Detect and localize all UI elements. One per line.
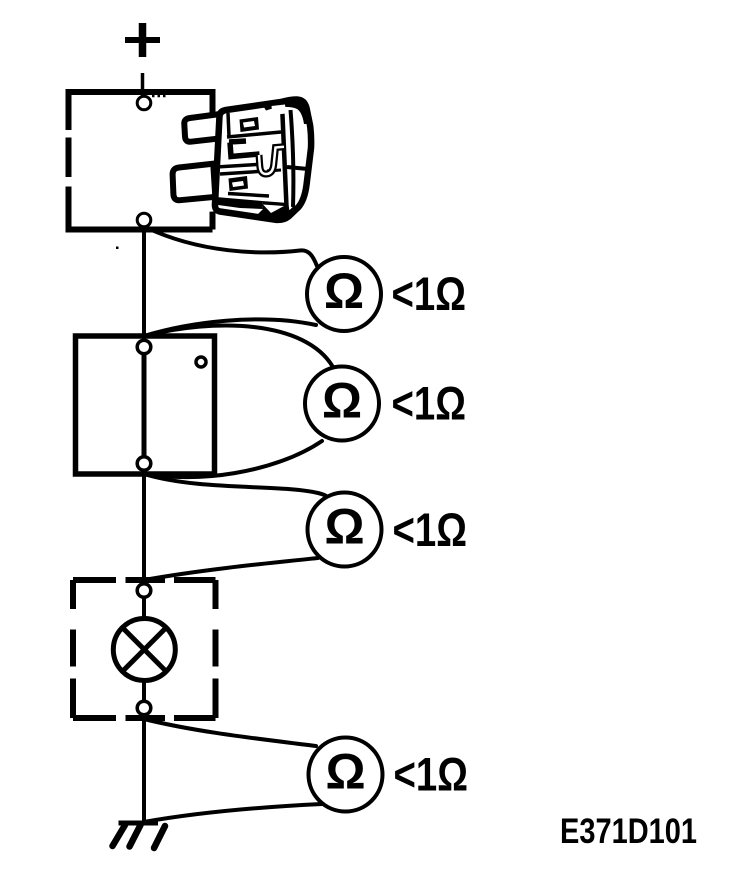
- svg-text:<1Ω: <1Ω: [392, 378, 467, 431]
- svg-text:<1Ω: <1Ω: [393, 504, 468, 557]
- svg-text:Ω: Ω: [324, 499, 364, 555]
- svg-text:<1Ω: <1Ω: [394, 749, 469, 802]
- svg-text:Ω: Ω: [322, 373, 362, 429]
- svg-text:E371D101: E371D101: [560, 812, 697, 851]
- svg-text:<1Ω: <1Ω: [392, 268, 467, 321]
- svg-text:Ω: Ω: [325, 744, 365, 800]
- svg-text:Ω: Ω: [324, 263, 364, 319]
